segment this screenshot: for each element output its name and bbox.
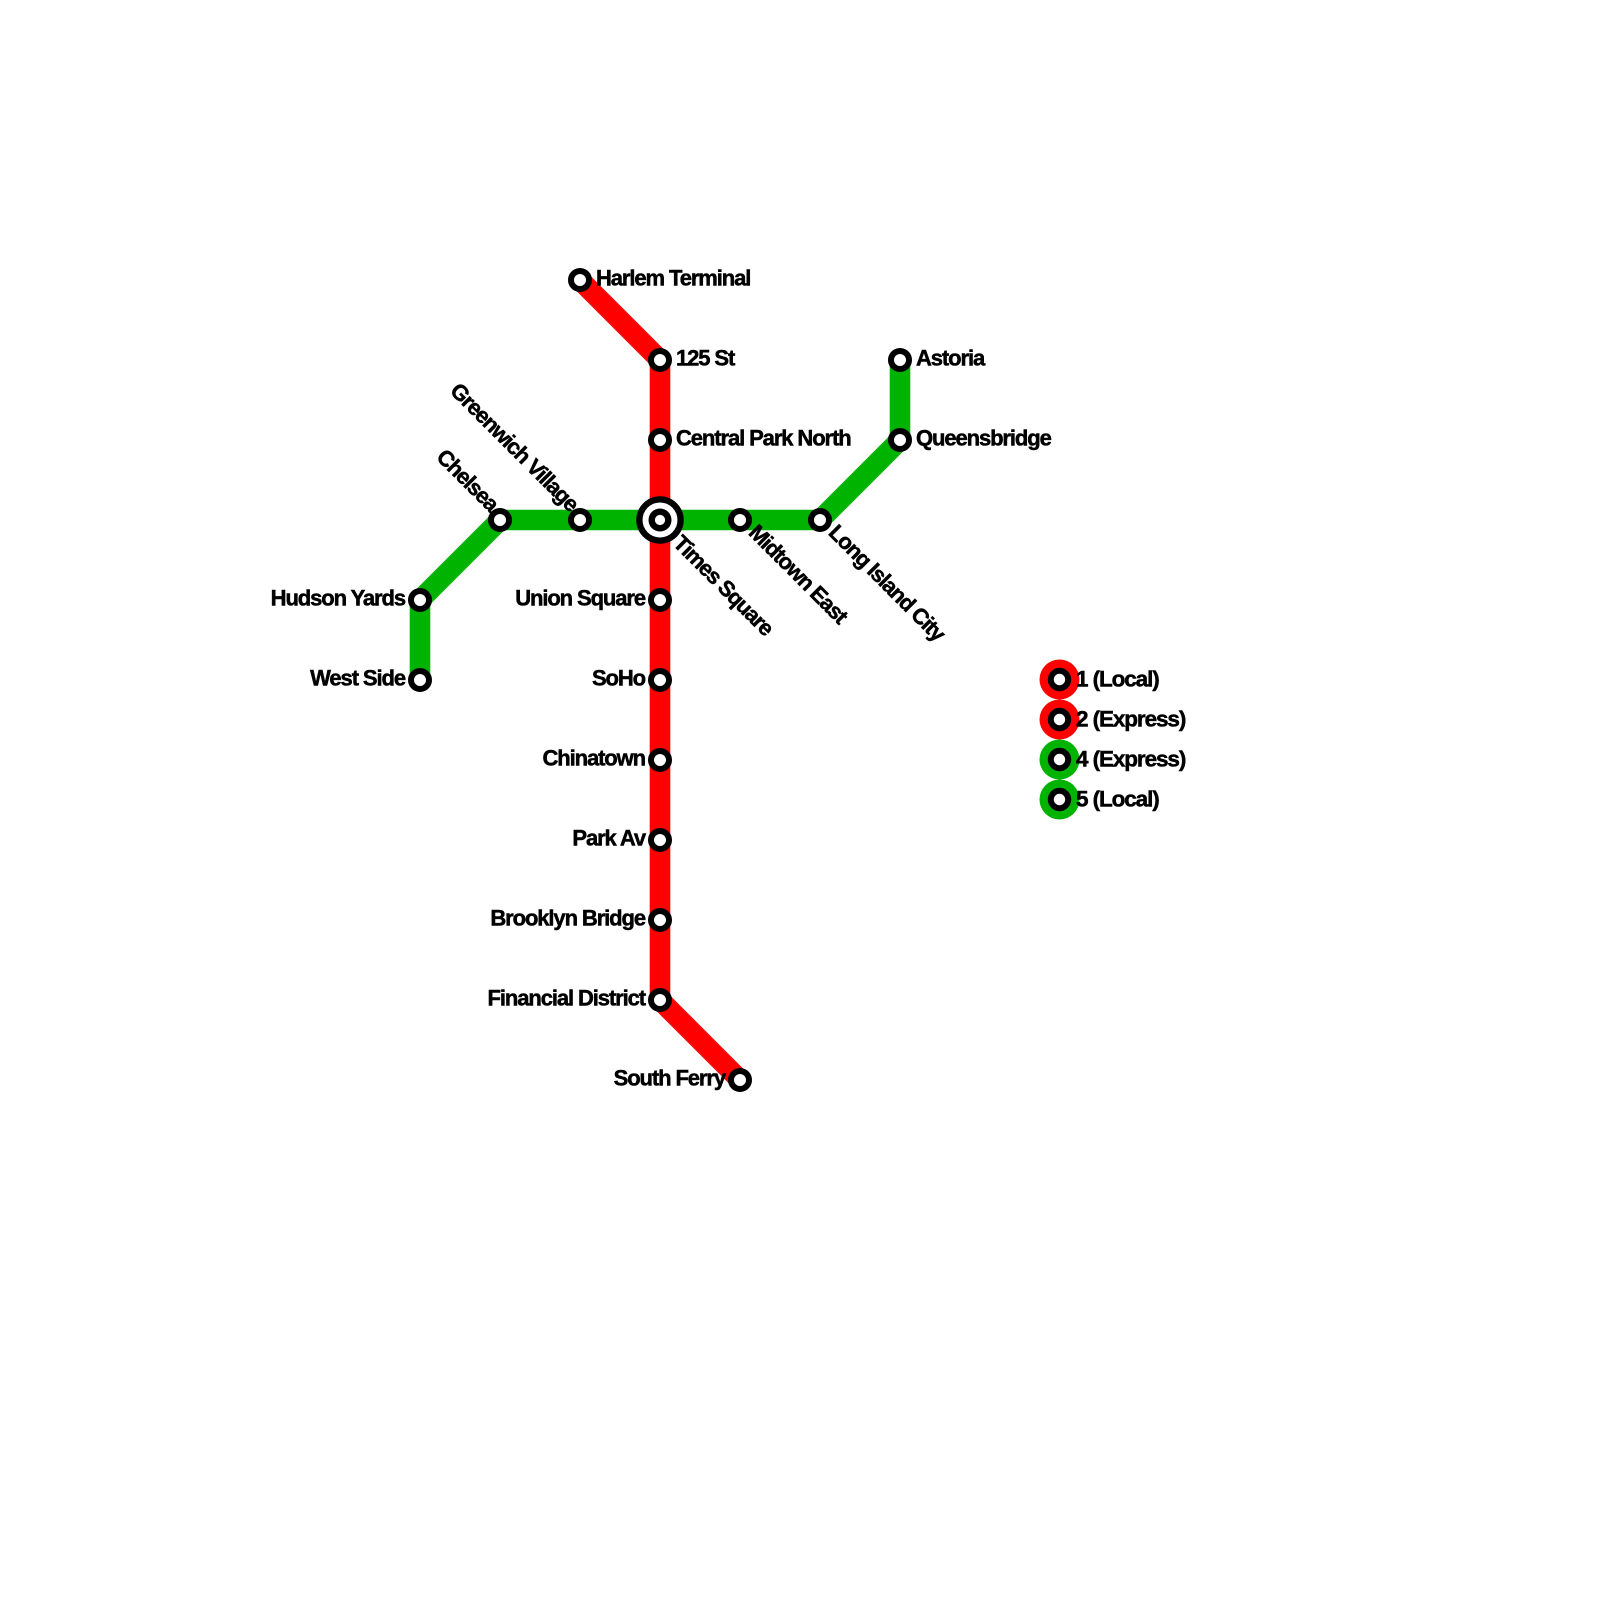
svg-text:Harlem Terminal: Harlem Terminal — [596, 266, 750, 291]
legend item 4 (Express) green — [1040, 740, 1186, 780]
svg-text:5 (Local): 5 (Local) — [1076, 787, 1159, 812]
svg-text:South Ferry: South Ferry — [614, 1066, 727, 1091]
svg-text:West Side: West Side — [310, 666, 406, 691]
svg-text:Astoria: Astoria — [916, 346, 986, 371]
svg-text:4 (Express): 4 (Express) — [1076, 747, 1186, 772]
station SoHo — [651, 671, 669, 689]
station Midtown East — [731, 511, 749, 529]
svg-text:Financial District: Financial District — [488, 986, 647, 1011]
station Brooklyn Bridge — [651, 911, 669, 929]
station Harlem Terminal — [571, 271, 589, 289]
svg-text:2 (Express): 2 (Express) — [1076, 707, 1186, 732]
red line 1/2 (Harlem Terminal - South Ferry) — [580, 280, 740, 1080]
legend item 1 (Local) red — [1040, 660, 1160, 700]
svg-text:Queensbridge: Queensbridge — [916, 426, 1052, 451]
station Hudson Yards — [411, 591, 429, 609]
green line 4/5 (Astoria - West Side) — [420, 360, 900, 680]
station West Side — [411, 671, 429, 689]
svg-text:Brooklyn Bridge: Brooklyn Bridge — [490, 906, 645, 931]
svg-text:Hudson Yards: Hudson Yards — [271, 586, 406, 611]
station Queensbridge — [891, 431, 909, 449]
station Long Island City — [811, 511, 829, 529]
legend item 5 (Local) green — [1040, 780, 1160, 820]
svg-text:Chinatown: Chinatown — [542, 746, 645, 771]
svg-text:1 (Local): 1 (Local) — [1076, 667, 1159, 692]
svg-text:125 St: 125 St — [676, 346, 736, 371]
station Chelsea — [491, 511, 509, 529]
svg-text:SoHo: SoHo — [592, 666, 646, 691]
station Park Av — [651, 831, 669, 849]
station Astoria — [891, 351, 909, 369]
station South Ferry — [731, 1071, 749, 1089]
station Central Park North — [651, 431, 669, 449]
station Financial District — [651, 991, 669, 1009]
station Chinatown — [651, 751, 669, 769]
interchange Times Square — [639, 499, 779, 641]
svg-text:Central Park North: Central Park North — [676, 426, 851, 451]
station Greenwich Village — [571, 511, 589, 529]
station Union Square — [651, 591, 669, 609]
svg-text:Union Square: Union Square — [515, 586, 646, 611]
legend item 2 (Express) red — [1040, 700, 1186, 740]
svg-text:Park Av: Park Av — [572, 826, 646, 851]
station 125 St — [651, 351, 669, 369]
